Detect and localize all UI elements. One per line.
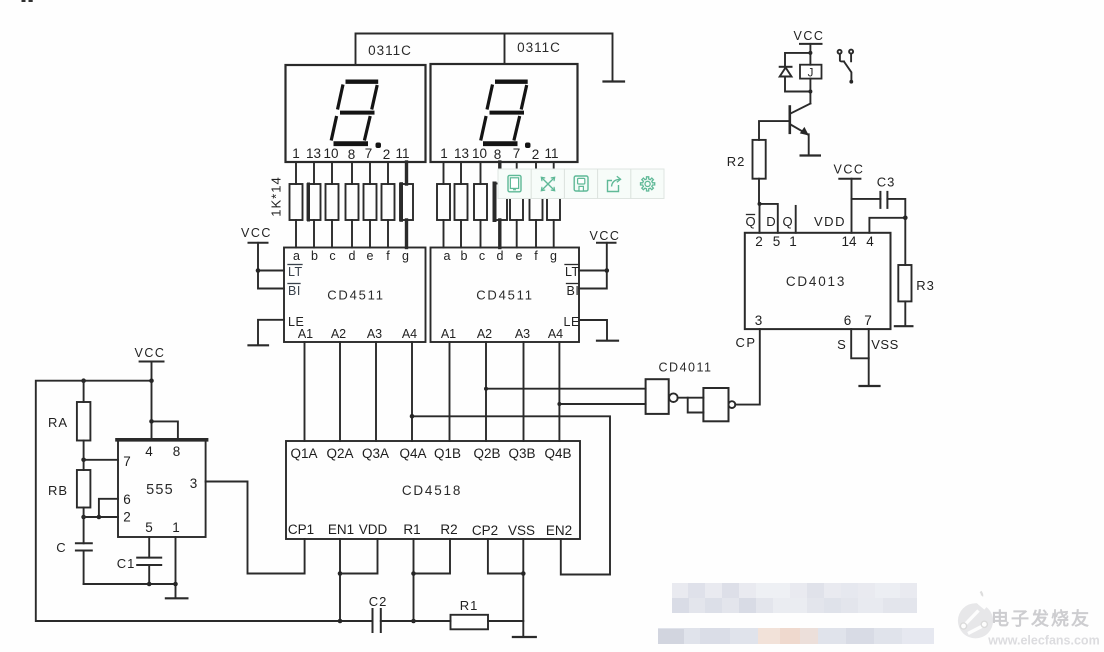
node R1/rail junction: [411, 619, 416, 624]
wire RB bottom: [83, 508, 85, 544]
svg-text:D: D: [766, 214, 775, 229]
svg-text:2: 2: [123, 510, 131, 525]
Q1 collector: [791, 104, 811, 114]
svg-text:5: 5: [773, 234, 781, 249]
DS2 decimal point: [525, 143, 531, 149]
wire U2 A3 to counter: [523, 342, 525, 441]
U4 bottom pin labels: [288, 522, 572, 538]
svg-text:7: 7: [864, 313, 872, 328]
mosaic blur band 2: [658, 628, 934, 644]
node pin1 junction: [173, 582, 178, 587]
svg-text:VSS: VSS: [508, 523, 535, 538]
node VCC rail junction: [149, 378, 154, 383]
U4 top pin labels: [290, 446, 571, 461]
wire 555 pin1 to ground: [175, 537, 177, 597]
svg-text:R1: R1: [460, 598, 479, 613]
svg-text:5: 5: [145, 520, 153, 535]
svg-text:0311C: 0311C: [517, 40, 561, 55]
node Q2B tap: [484, 387, 488, 391]
ground U2 LE: [597, 340, 618, 342]
resistor R1: [451, 615, 489, 630]
svg-text:c: c: [329, 249, 335, 263]
555 box top edge bold: [117, 438, 207, 442]
svg-text:VCC: VCC: [135, 346, 166, 360]
svg-text:Q1A: Q1A: [290, 446, 317, 461]
svg-text:Q3B: Q3B: [508, 446, 535, 461]
resistor R3: [898, 265, 911, 301]
svg-text:VCC: VCC: [590, 229, 621, 243]
resistor R2: [753, 140, 766, 179]
wire Q2B tap to NAND input1: [486, 388, 646, 390]
7-seg display DS2 box: [431, 64, 578, 162]
wire g bold to U1: [405, 220, 408, 248]
wire C bottom: [83, 551, 85, 585]
svg-text:f: f: [386, 249, 390, 263]
NAND gate G1 (CD4011): [646, 379, 669, 414]
svg-text:LT: LT: [565, 265, 580, 279]
svg-text:A2: A2: [477, 327, 492, 341]
node RB/C/pin2 junction: [81, 515, 86, 520]
svg-text:CP1: CP1: [288, 522, 314, 537]
svg-text:10: 10: [323, 146, 338, 161]
capacitor C2: [372, 609, 374, 632]
resistor RA: [77, 402, 91, 441]
diode D1: [780, 66, 792, 68]
svg-text:VDD: VDD: [359, 522, 388, 537]
wire CP2 join VSS: [488, 539, 523, 574]
svg-text:A4: A4: [548, 327, 563, 341]
DS2 pin lead d (bold): [498, 162, 501, 184]
capacitor C3: [879, 192, 881, 208]
svg-text:8: 8: [494, 147, 502, 162]
svg-text:555: 555: [146, 482, 174, 498]
svg-text:Q2B: Q2B: [473, 446, 500, 461]
svg-text:Q: Q: [745, 214, 755, 229]
DS1 decimal point: [376, 143, 382, 149]
svg-text:R2: R2: [440, 522, 457, 537]
DS1 pin leads: [295, 162, 297, 184]
svg-text:d: d: [497, 249, 504, 263]
svg-text:Q1B: Q1B: [434, 446, 461, 461]
svg-text:8: 8: [348, 147, 356, 162]
node LT1 junction: [256, 268, 261, 273]
svg-text:Q3A: Q3A: [362, 446, 389, 461]
node C3/R3/pin4 junction: [903, 216, 908, 221]
svg-text:e: e: [367, 249, 374, 263]
ground Q1 emitter: [801, 154, 820, 156]
DS1 pin numbers: [292, 146, 409, 162]
svg-text:A1: A1: [298, 327, 313, 341]
resistor network row1 (7 resistors under DS1): [290, 184, 303, 220]
svg-text:2: 2: [383, 147, 391, 162]
node VCC/pin4 junction: [149, 419, 154, 424]
svg-text:C2: C2: [369, 594, 388, 609]
ground U4 VSS: [513, 636, 536, 638]
wire VCC to pin14: [851, 179, 853, 233]
ground U3 VSS: [860, 385, 880, 387]
wire C3 to R3 top: [887, 199, 905, 265]
relay coil J box: [800, 65, 822, 79]
svg-text:14: 14: [841, 234, 857, 249]
svg-text:3: 3: [190, 476, 198, 491]
resistor RB: [77, 470, 91, 508]
DS2 digit 8: [481, 82, 528, 144]
svg-text:VCC: VCC: [794, 29, 825, 43]
wire U1 A3 to counter: [375, 342, 377, 441]
wire diode branch: [785, 53, 810, 67]
svg-text:11: 11: [544, 146, 558, 161]
svg-text:13: 13: [454, 146, 469, 161]
svg-text:VCC: VCC: [241, 226, 272, 240]
node LT2 junction: [605, 268, 610, 273]
wire 555 pin3 to CP1: [206, 482, 305, 574]
wire R1pin down to rail: [413, 539, 415, 621]
svg-text:CD4511: CD4511: [327, 288, 385, 303]
svg-text:11: 11: [395, 146, 409, 161]
wire VCC rail left: [36, 381, 373, 621]
wire VDD join EN1: [340, 539, 378, 574]
svg-text:c: c: [479, 249, 485, 263]
svg-text:b: b: [461, 249, 468, 263]
svg-text:C: C: [56, 540, 65, 555]
wire pin4-pin8 bridge: [152, 421, 178, 439]
svg-text:A3: A3: [367, 327, 382, 341]
timer IC 555 box: [118, 440, 206, 538]
op-amp decoder U1 CD4511 box: [284, 248, 426, 343]
svg-text:a: a: [444, 249, 451, 263]
wire U1 LE to ground: [258, 320, 284, 344]
G1 output bubble: [669, 393, 678, 402]
NAND gate G2 (CD4011): [703, 388, 728, 421]
wire emitter to ground: [808, 134, 810, 154]
svg-text:1: 1: [440, 146, 448, 161]
wire U3 pin6 join pin7: [851, 329, 869, 358]
svg-text:CP2: CP2: [472, 523, 498, 538]
wire U2 A2 to counter: [485, 342, 487, 441]
svg-text:0311C: 0311C: [368, 43, 412, 58]
node EN1/VDD junction: [338, 571, 343, 576]
svg-text:e: e: [516, 249, 523, 263]
wire G2 out to U3 CP: [735, 329, 760, 405]
icon tablet: [508, 175, 521, 191]
node pin7 junction: [81, 458, 86, 463]
resistor network row2 (7 resistors under DS2): [437, 184, 450, 220]
wire to 555 pin7: [84, 459, 118, 461]
svg-text:R1: R1: [403, 522, 420, 537]
DS2 pin numbers: [440, 146, 558, 162]
svg-text:A3: A3: [515, 327, 530, 341]
svg-text:7: 7: [365, 146, 373, 161]
svg-text:1: 1: [292, 146, 300, 161]
stray mark (cropped text) top-left: [22, 0, 33, 2]
svg-text:4: 4: [866, 234, 874, 249]
switch K lever: [844, 62, 851, 80]
svg-text:2: 2: [532, 147, 540, 162]
node collector junction: [808, 90, 812, 94]
svg-text:Q: Q: [782, 214, 792, 229]
svg-text:VCC: VCC: [834, 163, 865, 177]
svg-text:6: 6: [123, 492, 131, 507]
svg-text:1: 1: [172, 520, 180, 535]
ground U1 LE: [249, 344, 269, 346]
svg-text:RB: RB: [48, 483, 68, 498]
node pin6 junction: [97, 515, 102, 520]
svg-text:d: d: [349, 249, 356, 263]
counter U4 CD4518 box: [286, 441, 580, 539]
wire Q4B tap to NAND input2: [559, 403, 645, 405]
wire relay to collector: [809, 79, 811, 104]
svg-text:RA: RA: [48, 415, 68, 430]
svg-text:C3: C3: [877, 175, 896, 190]
svg-text:13: 13: [306, 146, 321, 161]
decoder U2 CD4511 box: [431, 248, 580, 343]
U1 top pin letters a-g: [293, 249, 409, 263]
wire top common bus: [356, 34, 613, 81]
wire branch to pin4: [869, 218, 905, 233]
svg-text:3: 3: [755, 313, 763, 328]
svg-text:A2: A2: [331, 327, 346, 341]
wire rail C2 to R1: [381, 620, 451, 622]
wire EN1 down to rail: [339, 539, 341, 621]
resistor row1 lower leads to U1: [295, 220, 297, 248]
svg-text:BI: BI: [288, 284, 301, 298]
wire to 555 pin2: [84, 516, 118, 518]
resistor row2 lower leads to U2: [443, 220, 445, 248]
svg-text:b: b: [311, 249, 318, 263]
wire U1 A4 to counter: [411, 342, 413, 441]
wire U2 A1 to counter: [449, 342, 451, 441]
wire VCC2 to LT/BI: [579, 243, 607, 289]
wire gnd bus 555: [84, 583, 176, 585]
U2 top pin letters a-g: [444, 249, 558, 263]
U3 pin labels top: [745, 214, 792, 229]
mosaic blur band 1: [672, 583, 917, 613]
wire VCC down to pin4: [151, 362, 153, 440]
svg-text:CP: CP: [735, 335, 756, 350]
svg-text:CD4011: CD4011: [659, 361, 713, 375]
svg-text:BI: BI: [567, 284, 580, 298]
svg-text:1: 1: [789, 234, 797, 249]
switch K contacts: [838, 50, 842, 54]
svg-text:S: S: [837, 337, 846, 352]
Q1 emitter with arrow: [791, 125, 808, 135]
wire diode bottom: [785, 77, 810, 92]
DS1 digit 8: [331, 82, 378, 144]
wire VCC1 to LT/BI: [258, 243, 284, 289]
capacitor C1: [148, 537, 150, 558]
node relay top junction: [808, 51, 812, 55]
svg-text:2: 2: [755, 234, 763, 249]
svg-text:VDD: VDD: [814, 214, 846, 229]
viewer toolbar overlay: [498, 169, 664, 199]
svg-text:VSS: VSS: [871, 337, 899, 352]
svg-text:6: 6: [844, 313, 852, 328]
svg-text:Q2A: Q2A: [326, 446, 353, 461]
wire R2 bottom to pins 2,5: [758, 179, 760, 204]
svg-text:7: 7: [513, 146, 521, 161]
svg-text:A4: A4: [402, 327, 417, 341]
icon gear: [641, 177, 655, 191]
svg-text:8: 8: [173, 444, 181, 459]
svg-text:www.elecfans.com: www.elecfans.com: [987, 634, 1099, 648]
node RA top junction: [81, 378, 86, 383]
wire 555 pin6 loop: [99, 499, 118, 517]
svg-text:Q4B: Q4B: [544, 446, 571, 461]
node VSS junction: [521, 571, 526, 576]
svg-text:10: 10: [472, 146, 487, 161]
icon save: [574, 176, 588, 191]
wire R2 top to base: [759, 121, 790, 140]
wire RA top: [83, 381, 85, 402]
wire U1 A1 to counter: [304, 342, 306, 441]
svg-text:EN2: EN2: [546, 523, 572, 538]
svg-text:a: a: [293, 249, 300, 263]
DS2 pin leads: [443, 162, 445, 184]
wire display2 top drop: [504, 34, 506, 65]
wire d bold to U2: [498, 220, 501, 248]
wire R3 bottom: [904, 301, 906, 324]
svg-text:Q4A: Q4A: [399, 446, 426, 461]
svg-text:LE: LE: [564, 315, 580, 329]
U3 pin numbers: [755, 234, 875, 328]
555 pin labels: [123, 444, 197, 535]
svg-text:1K*14: 1K*14: [269, 176, 284, 216]
svg-text:g: g: [402, 249, 409, 263]
svg-text:C1: C1: [117, 556, 136, 571]
ground top-right: [604, 80, 625, 82]
wire U3 pin1 stub: [795, 206, 797, 233]
capacitor C: [76, 542, 92, 544]
ground R3: [895, 325, 913, 327]
watermark logo elecfans: [958, 592, 993, 639]
wire R2pin join R1pin: [414, 539, 451, 574]
G2 output bubble: [729, 401, 736, 408]
svg-text:CD4511: CD4511: [476, 288, 534, 303]
svg-text:CD4518: CD4518: [402, 483, 462, 498]
flip-flop U3 CD4013 box: [745, 233, 891, 329]
U1 pins A1-A4: [298, 327, 417, 341]
node Q4B tap: [557, 402, 561, 406]
node R2/pin2 junction: [758, 202, 762, 206]
U2 pins A1-A4: [441, 327, 563, 341]
U3 Qbar overbar: [747, 214, 755, 216]
svg-text:R3: R3: [916, 278, 935, 293]
svg-text:g: g: [550, 249, 557, 263]
svg-text:R2: R2: [727, 154, 746, 169]
ground 555: [166, 597, 188, 599]
wire U2 A4 to counter: [558, 342, 560, 441]
node EN1/rail junction: [338, 619, 343, 624]
wire U1 A2 to counter: [339, 342, 341, 441]
node R1/R2 junction: [411, 571, 416, 576]
icon expand: [541, 177, 554, 190]
DS1 pin lead g (bold): [405, 162, 408, 184]
wire Q4A feedback to EN2: [412, 416, 610, 574]
wire VCC down: [809, 44, 811, 65]
wire U2 LE to ground: [579, 320, 607, 339]
wire U3 pin7 VSS to ground: [868, 329, 870, 384]
svg-text:f: f: [534, 249, 538, 263]
wire RA-RB: [83, 441, 85, 471]
svg-text:CD4013: CD4013: [786, 274, 846, 289]
svg-text:A1: A1: [441, 327, 456, 341]
svg-text:7: 7: [123, 454, 131, 469]
wire R1 to VSS: [488, 620, 523, 622]
svg-text:电子发烧友: 电子发烧友: [991, 608, 1091, 629]
wire VSS to ground: [522, 539, 524, 636]
wire G1 out to G2 inputs: [678, 397, 704, 399]
7-seg display DS1 box: [286, 65, 426, 162]
svg-text:EN1: EN1: [328, 522, 354, 537]
node Q4A tap: [410, 414, 415, 419]
svg-text:LT: LT: [288, 265, 303, 279]
icon share: [608, 176, 621, 191]
wire pin14 branch to C3: [852, 198, 881, 200]
transistor Q1 base bar: [788, 107, 791, 133]
svg-text:4: 4: [145, 444, 153, 459]
node C1 junction: [147, 582, 152, 587]
